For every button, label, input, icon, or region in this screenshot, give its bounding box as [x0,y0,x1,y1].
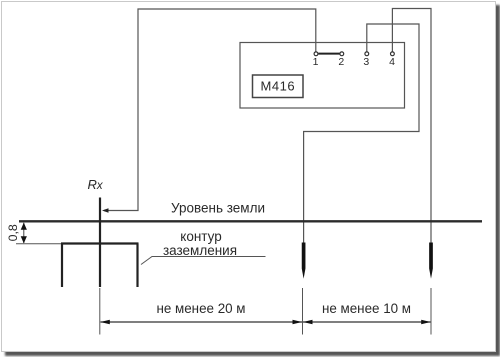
svg-text:3: 3 [363,56,369,68]
svg-text:M416: M416 [261,78,296,93]
svg-text:1: 1 [313,56,319,68]
svg-text:не менее 20 м: не менее 20 м [156,301,245,316]
svg-text:Rx: Rx [88,177,104,192]
svg-text:Уровень земли: Уровень земли [171,201,265,216]
svg-text:не менее 10 м: не менее 10 м [322,301,411,316]
svg-text:заземления: заземления [163,243,237,258]
svg-text:4: 4 [389,56,395,68]
svg-text:контур: контур [180,229,221,244]
svg-text:2: 2 [338,56,344,68]
svg-text:0,8: 0,8 [6,224,20,241]
